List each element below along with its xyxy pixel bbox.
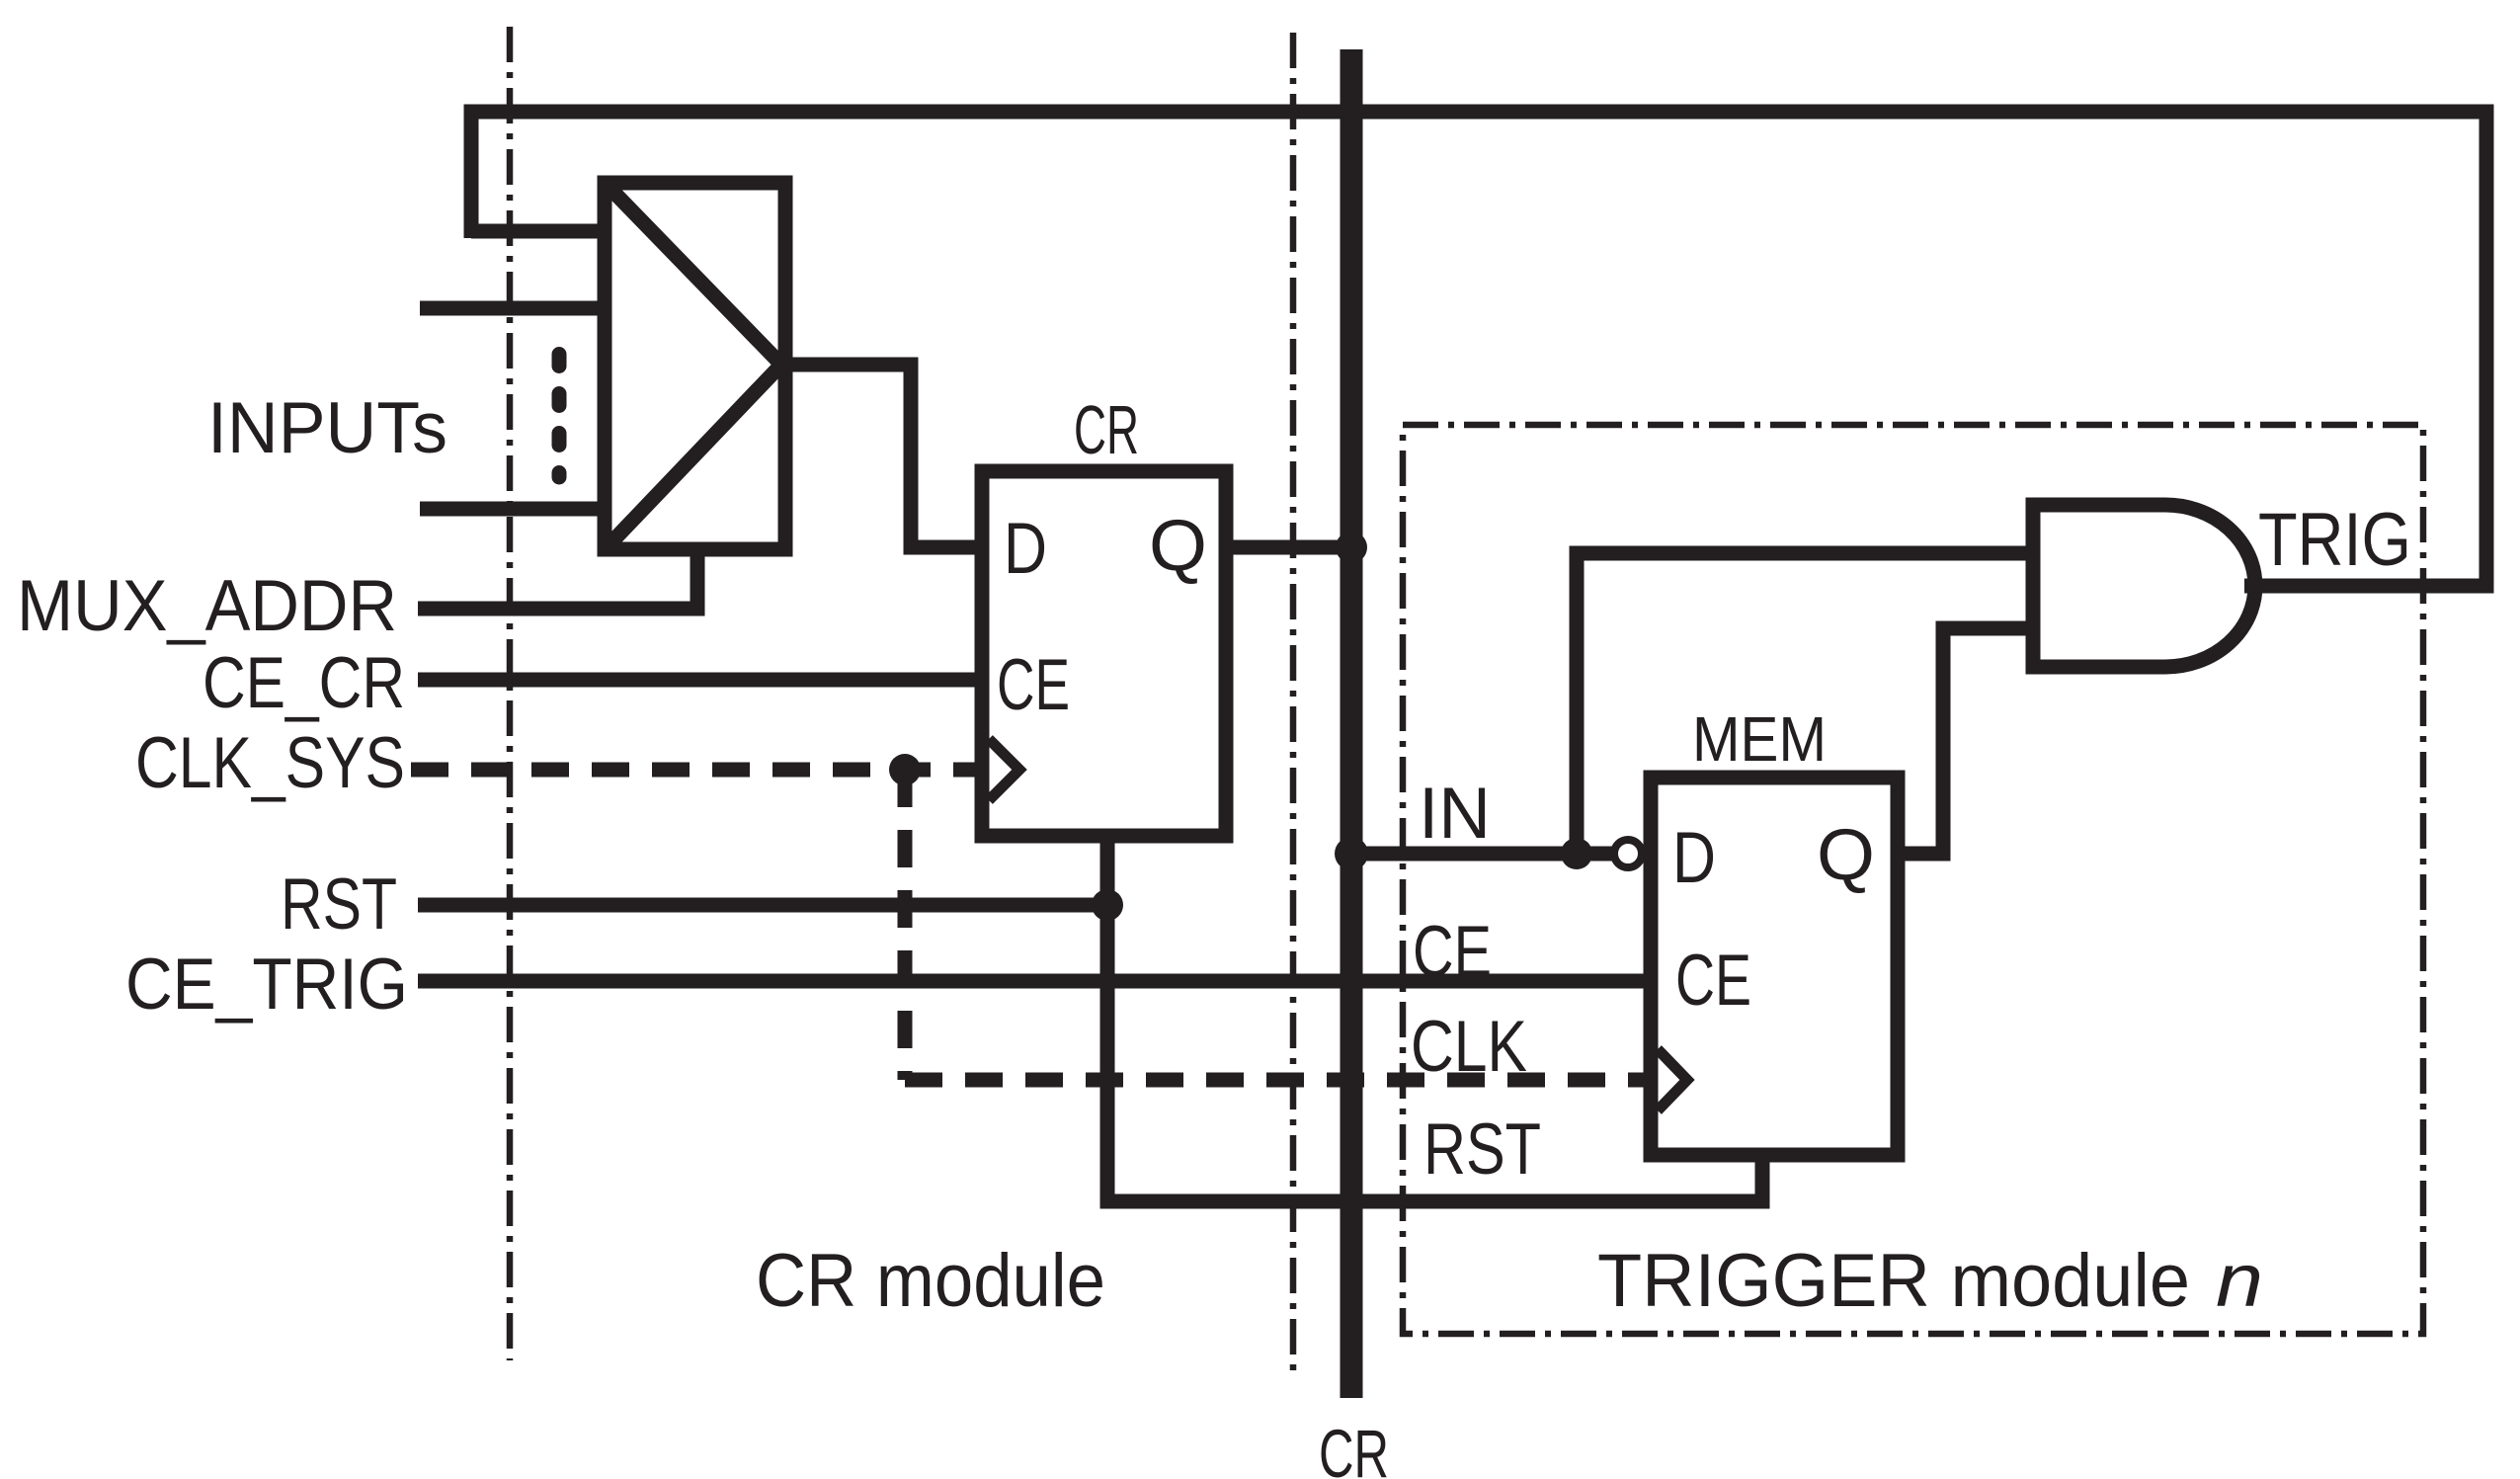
svg-text:CLK: CLK xyxy=(1411,1007,1527,1087)
wire: IN from CR bus to MEM flip-flop D xyxy=(1351,847,1613,862)
svg-text:RST: RST xyxy=(1423,1109,1541,1190)
junction on CLK_SYS xyxy=(889,754,921,785)
wire: AND gate output TRIG xyxy=(2244,579,2272,594)
wire: INPUTS line 2 into mux xyxy=(420,301,605,316)
inversion bubble at MEM D input xyxy=(1614,840,1642,867)
flip-flop CR clock edge triangle xyxy=(989,739,1019,800)
wire: CR flip-flop Q output to CR bus xyxy=(1226,540,1351,555)
wire: CR flip-flop reset stub down to RST run xyxy=(1107,836,1762,1201)
wire: CE_CR to CR flip-flop CE pin xyxy=(418,673,982,688)
svg-text:n: n xyxy=(2216,1239,2263,1323)
wire: CLK_SYS dashed to CR flip-flop clock xyxy=(411,763,982,778)
svg-text:CE_CR: CE_CR xyxy=(203,643,405,723)
multiplexer MUX body xyxy=(605,183,785,549)
svg-text:CE_TRIG: CE_TRIG xyxy=(125,945,408,1025)
svg-text:RST: RST xyxy=(281,864,397,945)
wire: MUX_ADDR into mux select (bottom) xyxy=(418,549,697,609)
svg-text:D: D xyxy=(1004,509,1047,589)
svg-text:TRIG: TRIG xyxy=(2258,498,2411,582)
wire: IN branch up to AND gate upper input xyxy=(1577,553,2033,854)
wire: feedback into multiplexer input 1 xyxy=(471,224,605,239)
CR bus (thick vertical line) xyxy=(1341,49,1363,1398)
wire: RST input xyxy=(418,898,1107,913)
wire: CLK_SYS dashed branch down xyxy=(898,770,913,1080)
svg-text:Q: Q xyxy=(1817,815,1875,895)
flip-flop CR body xyxy=(982,471,1226,836)
svg-text:CE: CE xyxy=(1675,941,1751,1021)
multiplexer MUX triangle diagonal (top) xyxy=(610,188,781,365)
wire: mux output to CR flip-flop D input xyxy=(785,365,982,547)
module boundary dash-dot line (CR/TRIGGER separation) xyxy=(1290,33,1297,1373)
TRIGGER module n dash-dot boundary box xyxy=(1403,425,2423,1334)
junction node IN at D branch xyxy=(1561,838,1592,869)
svg-text:CR module: CR module xyxy=(756,1239,1105,1323)
wire: TRIG feedback (top horizontal, right vertical, down to mux input) xyxy=(471,112,2486,586)
wire: CLK dashed to MEM flip-flop clock xyxy=(905,1073,1651,1088)
svg-text:CR: CR xyxy=(1319,1416,1389,1479)
junction node Q/bus xyxy=(1336,532,1367,563)
svg-text:CLK_SYS: CLK_SYS xyxy=(135,723,405,803)
svg-text:CR: CR xyxy=(1074,391,1139,468)
multiplexer MUX triangle diagonal (bottom) xyxy=(610,365,781,544)
svg-text:CE: CE xyxy=(997,645,1070,725)
junction node IN at bus xyxy=(1335,837,1368,870)
svg-text:IN: IN xyxy=(1419,774,1491,854)
ellipsis dots between input lines xyxy=(552,355,567,478)
and-gate U1 xyxy=(2033,505,2255,667)
wire: MEM flip-flop Q output up to AND gate lower input xyxy=(1898,628,2033,854)
svg-text:MUX_ADDR: MUX_ADDR xyxy=(17,566,397,646)
module boundary dash-dot line (CR module left) xyxy=(507,27,514,1360)
svg-text:Q: Q xyxy=(1149,506,1207,586)
junction node RST xyxy=(1092,889,1123,921)
svg-text:INPUTs: INPUTs xyxy=(207,388,447,468)
svg-text:CE: CE xyxy=(1413,912,1492,992)
flip-flop MEM clock edge triangle xyxy=(1658,1049,1687,1110)
wire: INPUTS line 3 into mux xyxy=(420,502,605,517)
wire: CE_TRIG to MEM flip-flop CE pin xyxy=(418,974,1651,989)
svg-text:D: D xyxy=(1672,818,1716,898)
svg-text:TRIGGER module: TRIGGER module xyxy=(1597,1239,2190,1323)
flip-flop MEM body xyxy=(1651,778,1898,1155)
svg-text:MEM: MEM xyxy=(1692,703,1827,775)
